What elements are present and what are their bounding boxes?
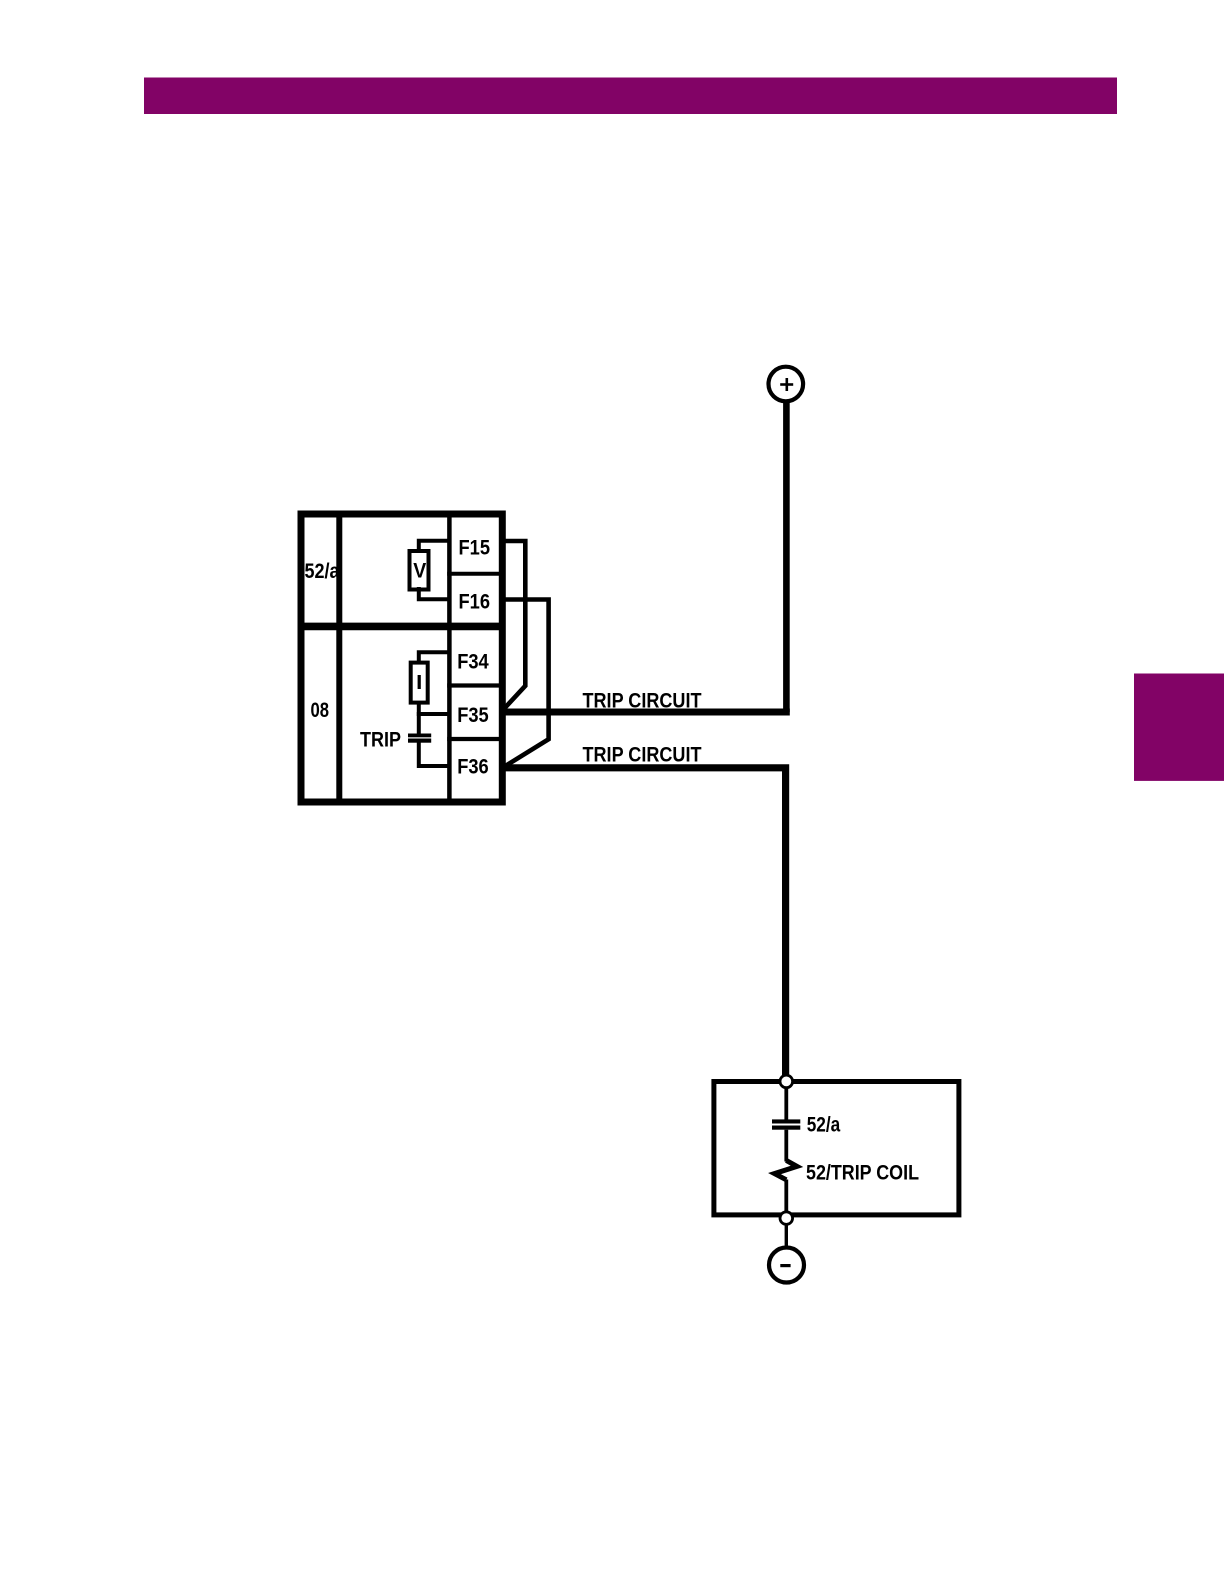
breaker box	[714, 1082, 959, 1215]
TRIP contact (capacitor symbol)	[408, 734, 431, 743]
terminal column divider	[447, 511, 452, 806]
svg-text:F15: F15	[459, 537, 491, 560]
F35/F36 divider	[447, 737, 505, 741]
svg-text:F35: F35	[457, 704, 489, 727]
node bottom	[780, 1212, 793, 1225]
wire 52/a contact to trip coil	[784, 1130, 788, 1162]
svg-text:08: 08	[311, 699, 330, 722]
wire I to TRIP contact junction	[417, 701, 421, 734]
wire V to F15	[419, 541, 449, 553]
wire junction to F35	[417, 712, 449, 716]
svg-text:TRIP CIRCUIT: TRIP CIRCUIT	[583, 689, 702, 712]
lower trip circuit wire	[503, 768, 786, 1076]
wire node to negative terminal	[785, 1224, 788, 1246]
positive terminal	[769, 367, 804, 402]
side tab	[1134, 674, 1224, 781]
header banner	[144, 78, 1117, 115]
svg-text:F34: F34	[457, 651, 489, 674]
F15/F16 divider	[447, 572, 505, 576]
upper trip circuit wire	[503, 709, 790, 716]
svg-text:52/a: 52/a	[807, 1114, 841, 1137]
wire F16 to lower trip circuit junction	[503, 600, 549, 767]
svg-text:52/a: 52/a	[305, 560, 340, 583]
voltage monitor V	[410, 551, 429, 590]
wire positive terminal to upper trip circuit	[783, 402, 790, 712]
svg-text:TRIP: TRIP	[360, 729, 401, 752]
svg-text:TRIP CIRCUIT: TRIP CIRCUIT	[583, 744, 702, 767]
svg-text:52/TRIP COIL: 52/TRIP COIL	[806, 1162, 919, 1185]
row divider between 52/a and 08 sections	[298, 623, 506, 631]
negative terminal	[769, 1248, 804, 1283]
wire V to F16	[419, 587, 449, 599]
wire I to F34	[419, 652, 449, 664]
wire node to 52/a contact	[784, 1088, 788, 1120]
breaker auxiliary contact 52/a	[772, 1119, 800, 1129]
wire TRIP contact to F36	[419, 743, 449, 767]
F34/F35 divider	[447, 683, 505, 687]
relay case outline	[301, 514, 502, 802]
wire F15 to upper trip circuit junction	[503, 541, 525, 709]
relay label column divider	[336, 511, 342, 806]
current monitor I	[411, 663, 428, 703]
wire trip coil to node bottom	[784, 1180, 788, 1213]
node top	[780, 1075, 793, 1088]
svg-text:V: V	[413, 560, 426, 583]
svg-text:F16: F16	[459, 591, 491, 614]
svg-text:F36: F36	[457, 756, 489, 779]
trip coil zigzag	[775, 1160, 798, 1179]
